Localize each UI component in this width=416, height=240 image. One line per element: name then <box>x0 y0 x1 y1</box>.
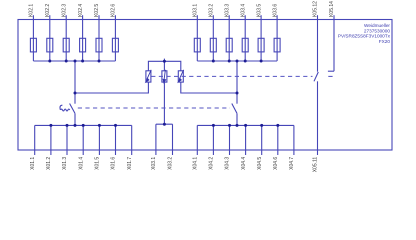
svg-text:FX20: FX20 <box>379 39 391 44</box>
svg-text:X04.5: X04.5 <box>257 157 263 170</box>
terminal K03.5 label <box>256 4 262 17</box>
bus group1 <box>33 60 115 62</box>
wire X01.4 <box>82 125 84 155</box>
svg-text:K02.4: K02.4 <box>78 4 84 17</box>
wire trip element mid bottom to X03 bus <box>163 82 165 124</box>
terminal X04.6 label <box>273 157 279 170</box>
terminal X01.7 label <box>127 157 133 170</box>
svg-text:X01.3: X01.3 <box>62 157 68 170</box>
fuse F9 K03.3 <box>226 38 232 52</box>
svg-text:PV/SR8Z5S8F3V1000Tx: PV/SR8Z5S8F3V1000Tx <box>338 34 391 39</box>
arrow of trip indicator E3 <box>179 70 183 80</box>
terminal K03.6 label <box>272 4 278 17</box>
fuse trip indicator E1 <box>146 71 151 82</box>
terminal X05.11 label <box>313 157 319 173</box>
fuse F4 K02.4 <box>80 38 86 52</box>
terminal K02.6 label <box>111 4 117 17</box>
svg-text:X03.1: X03.1 <box>151 157 157 170</box>
signal contact S3 blade <box>314 72 318 81</box>
terminal K03.3 label <box>224 4 230 17</box>
fuse trip indicator E3 <box>178 71 183 82</box>
svg-text:X01.2: X01.2 <box>46 157 52 170</box>
svg-text:K03.3: K03.3 <box>224 4 230 17</box>
fuse F12 K03.6 <box>274 38 280 52</box>
wire X04.1 <box>196 125 198 155</box>
wire X01.5 <box>98 125 100 155</box>
svg-text:K02.3: K02.3 <box>61 4 67 17</box>
wire K02.3 <box>65 15 67 61</box>
wire K03.3 <box>228 15 230 61</box>
svg-text:X01.7: X01.7 <box>127 157 133 170</box>
terminal K03.4 label <box>240 4 246 17</box>
svg-text:X04.3: X04.3 <box>225 157 231 170</box>
wire K05.14 <box>333 15 335 71</box>
wire X04.5 <box>261 125 263 155</box>
terminal K05.14 label <box>329 1 335 17</box>
junction dots bus X04 <box>212 124 215 127</box>
terminal X04.5 label <box>257 157 263 170</box>
junction dot bracket center <box>163 60 166 63</box>
wire X03.2 <box>172 124 174 155</box>
svg-text:X04.2: X04.2 <box>209 157 215 170</box>
wire K02.5 <box>98 15 100 61</box>
svg-text:X05.11: X05.11 <box>313 157 319 173</box>
wire K03.4 <box>244 15 246 61</box>
terminal X04.2 label <box>209 157 215 170</box>
svg-text:X04.7: X04.7 <box>289 157 295 170</box>
svg-text:X01.4: X01.4 <box>78 157 84 170</box>
fuse F8 K03.2 <box>210 38 216 52</box>
wire X04.2 <box>212 125 214 155</box>
svg-text:K02.1: K02.1 <box>29 4 35 17</box>
svg-text:X04.4: X04.4 <box>241 157 247 170</box>
terminal X01.5 label <box>95 157 101 170</box>
wire group1 feed drop <box>74 61 76 104</box>
svg-text:K05.12: K05.12 <box>313 1 319 17</box>
wire K05.12 to signal contact <box>317 15 319 71</box>
title block text <box>338 23 391 44</box>
wire X04.7 <box>293 125 295 155</box>
svg-text:K03.1: K03.1 <box>193 4 199 17</box>
wire K03.5 <box>260 15 262 61</box>
wire X01.1 <box>34 125 36 155</box>
svg-text:X03.2: X03.2 <box>168 157 174 170</box>
junction dot bus X03 <box>163 123 166 126</box>
svg-text:2737530000: 2737530000 <box>364 28 390 33</box>
wire signal contact common to X05.11 <box>317 81 319 155</box>
svg-text:K03.2: K03.2 <box>209 4 215 17</box>
terminal X04.1 label <box>193 157 199 170</box>
svg-text:K03.6: K03.6 <box>272 4 278 17</box>
wire X01.2 <box>50 125 52 155</box>
dashed linkage line to group contacts <box>78 107 230 109</box>
terminal K03.2 label <box>209 4 215 17</box>
wire X01.6 <box>115 125 117 155</box>
terminal X01.2 label <box>46 157 52 170</box>
arrow of trip indicator E1 <box>147 70 151 80</box>
wire X04.6 <box>277 125 279 155</box>
terminal X04.3 label <box>225 157 231 170</box>
dashed linkage line trip indicators to signal contact <box>151 75 312 77</box>
terminal K02.5 label <box>94 4 100 17</box>
fuse F5 K02.5 <box>96 38 102 52</box>
svg-text:X04.6: X04.6 <box>273 157 279 170</box>
wire X03.1 <box>155 124 157 155</box>
svg-text:X01.5: X01.5 <box>95 157 101 170</box>
bus X03 <box>156 123 173 125</box>
fuse F1 K02.1 <box>30 38 36 52</box>
wire K03.2 <box>212 15 214 61</box>
fuse F7 K03.1 <box>194 38 200 52</box>
fuse F11 K03.5 <box>258 38 264 52</box>
terminal K05.12 label <box>313 1 319 17</box>
fuse F6 K02.6 <box>112 38 118 52</box>
terminal X03.1 label <box>151 157 157 170</box>
dashed linkage stub at signal contact <box>328 75 332 77</box>
junction dots bus X01 <box>49 124 52 127</box>
wire K02.1 <box>32 15 34 61</box>
wire contact S1 bottom <box>74 113 76 125</box>
thermal trip symbol at S1 <box>60 105 70 111</box>
terminal X03.2 label <box>168 157 174 170</box>
terminal K03.1 label <box>193 4 199 17</box>
arrow of trip indicator E2 <box>164 70 165 80</box>
wire K03.6 <box>276 15 278 61</box>
svg-text:X04.1: X04.1 <box>193 157 199 170</box>
wire contact S2 bottom <box>236 113 238 125</box>
svg-text:K03.4: K03.4 <box>240 4 246 17</box>
junction dot rail group2 <box>236 92 239 95</box>
bus X01 <box>35 124 132 126</box>
terminal K02.3 label <box>61 4 67 17</box>
wire X01.7 <box>131 125 133 155</box>
wire group2 feed drop <box>236 61 238 104</box>
svg-text:Weidmueller: Weidmueller <box>364 23 390 28</box>
svg-text:K03.5: K03.5 <box>256 4 262 17</box>
junction dot rail group1 <box>74 92 77 95</box>
junction dots bus group1 <box>48 60 51 63</box>
fuse F2 K02.2 <box>47 38 53 52</box>
contact S1 blade group1 <box>70 104 75 114</box>
svg-text:K05.14: K05.14 <box>329 1 335 17</box>
wire K02.4 <box>82 15 84 61</box>
fuse trip indicator E2 <box>162 71 167 82</box>
terminal X01.6 label <box>111 157 117 170</box>
fuse F3 K02.3 <box>63 38 69 52</box>
terminal X01.1 label <box>30 157 36 170</box>
terminal X04.7 label <box>289 157 295 170</box>
bus group2 <box>197 60 277 62</box>
fuse F10 K03.4 <box>242 38 248 52</box>
bracket wire joining trip element tops <box>148 61 180 71</box>
wire bracket center stub <box>163 59 165 62</box>
wire rail group2 to trip element <box>181 82 237 93</box>
terminal X04.4 label <box>241 157 247 170</box>
wire X04.3 <box>229 125 231 155</box>
contact S2 blade group2 <box>232 104 237 114</box>
svg-text:K02.5: K02.5 <box>94 4 100 17</box>
terminal K02.4 label <box>78 4 84 17</box>
terminal X01.4 label <box>78 157 84 170</box>
wire X04.4 <box>245 125 247 155</box>
wire K02.6 <box>114 15 116 61</box>
terminal K02.2 label <box>45 4 51 17</box>
svg-text:X01.6: X01.6 <box>111 157 117 170</box>
wire K03.1 <box>196 15 198 61</box>
svg-text:K02.6: K02.6 <box>111 4 117 17</box>
bus X04 <box>197 124 294 126</box>
junction dots bus group2 <box>212 60 215 63</box>
border frame of schematic <box>18 20 392 151</box>
terminal X01.3 label <box>62 157 68 170</box>
wire K02.2 <box>49 15 51 61</box>
wire K05.14 contact seat <box>328 70 334 72</box>
wire rail group1 to trip element <box>75 82 148 93</box>
svg-text:K02.2: K02.2 <box>45 4 51 17</box>
svg-text:X01.1: X01.1 <box>30 157 36 170</box>
wire X01.3 <box>66 125 68 155</box>
terminal K02.1 label <box>29 4 35 17</box>
wire trip element mid top <box>163 61 165 71</box>
